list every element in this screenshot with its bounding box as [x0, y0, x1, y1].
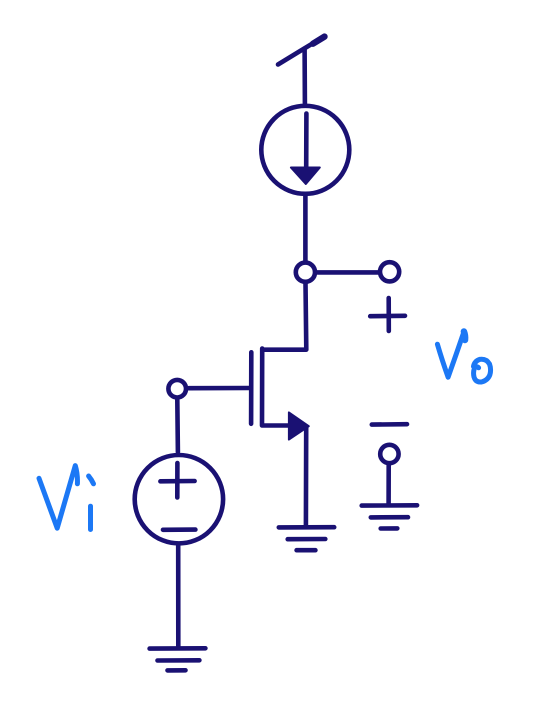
wire (output - terminal to ground) [386, 465, 391, 505]
transistor M1 (NMOS) [251, 349, 309, 440]
wire (drain node down to transistor drain) [262, 284, 306, 350]
voltage source Vi [135, 455, 223, 543]
wire (gate lead) [189, 386, 250, 391]
node drain / output node [296, 263, 315, 282]
wire (current source to drain node) [303, 196, 308, 261]
wire (drain node to output terminal) [318, 270, 379, 275]
label Vi [39, 466, 94, 530]
ground (Vi) [150, 648, 206, 670]
wire (VDD tick to current source) [302, 49, 307, 104]
node output - terminal [380, 445, 398, 463]
node gate terminal [168, 380, 186, 398]
ground (transistor source) [279, 527, 334, 550]
wire (Vi source to ground) [176, 546, 181, 647]
label - (output polarity) [372, 422, 407, 427]
ground (output -) [362, 505, 417, 528]
VDD rail tick [278, 37, 325, 65]
current source I1 [261, 106, 349, 194]
label Vo [437, 332, 490, 383]
label + (output polarity) [370, 298, 405, 331]
node output + terminal [380, 262, 399, 281]
wire (source lead down to ground) [304, 427, 309, 527]
wire (gate terminal down to Vi source) [175, 400, 180, 452]
